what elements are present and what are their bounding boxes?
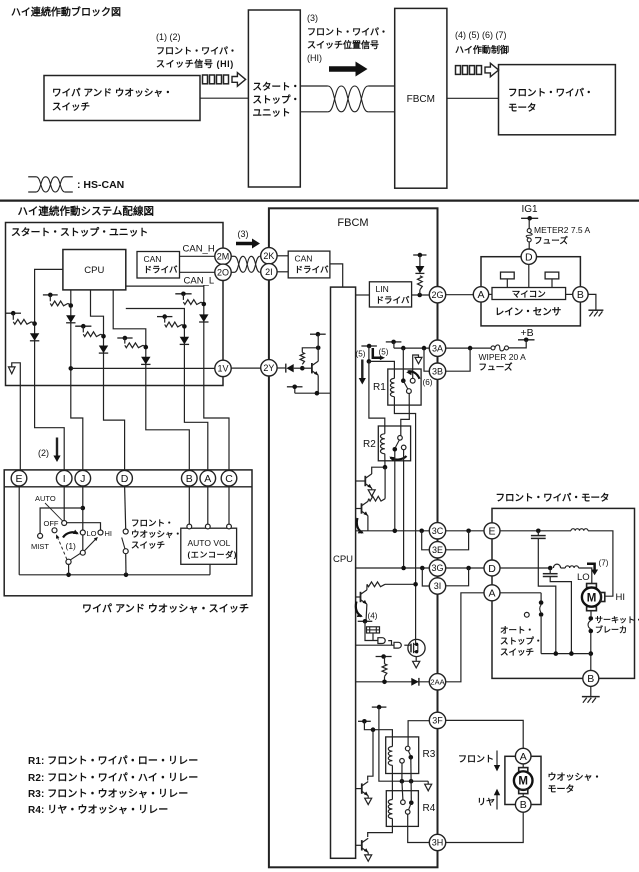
wire 3C to E — [446, 530, 484, 532]
LIN driver box — [369, 282, 411, 307]
resistor 2AA node — [384, 657, 386, 664]
svg-text:2AA: 2AA — [430, 678, 444, 687]
svg-text:オート・: オート・ — [500, 625, 534, 635]
microcomputer box — [492, 288, 566, 300]
buffer gate 1 — [378, 638, 385, 644]
wire R4 contact to 3H — [408, 814, 430, 842]
relay R4 box — [386, 791, 418, 827]
connector 2O — [215, 264, 231, 280]
connector A (rain sensor) — [473, 287, 488, 302]
connector B (switch) — [182, 470, 198, 486]
relay R1 box — [388, 369, 421, 405]
action arrow (4) — [356, 602, 362, 617]
capacitor E line — [537, 531, 539, 536]
connector 3E — [429, 542, 445, 558]
wire D to microcomputer — [528, 264, 530, 287]
resistor S5 — [164, 317, 166, 323]
svg-text:CPU: CPU — [84, 265, 104, 276]
svg-text:フューズ: フューズ — [479, 362, 513, 372]
svg-text:スイッチ位置信号: スイッチ位置信号 — [307, 39, 379, 50]
svg-text:LO: LO — [87, 529, 97, 538]
svg-text:ユニット: ユニット — [253, 108, 291, 119]
twisted pair 2M/2O to 2K/2I — [235, 256, 260, 272]
svg-text:ウオッシャ・: ウオッシャ・ — [131, 529, 182, 539]
LO contact — [80, 530, 85, 535]
wire CAN driver to 2O — [180, 271, 215, 273]
svg-text:(HI): (HI) — [307, 53, 322, 63]
CAN driver box (start-stop unit) — [137, 252, 180, 279]
supply bar 2AA pull resistor — [376, 656, 392, 658]
svg-text:R3: R3 — [423, 749, 436, 760]
transistor Q4 — [356, 596, 361, 598]
wire R2 coil to Q2 — [384, 454, 386, 468]
block: FBCM — [395, 8, 447, 188]
svg-text:ブレーカ: ブレーカ — [595, 625, 627, 635]
resistor Q4 collector — [367, 582, 385, 587]
action arrow R2 — [391, 456, 407, 460]
connector B (washer) — [515, 797, 531, 813]
rotation arrow (1) — [63, 532, 78, 537]
connector C (switch) — [221, 470, 237, 486]
svg-text:LIN: LIN — [376, 284, 389, 294]
svg-text:3E: 3E — [432, 545, 443, 555]
wire 1V to 2Y — [231, 367, 261, 369]
diode S3 — [99, 346, 108, 354]
wire (5) node to R1 coil — [369, 361, 395, 378]
wire CPU to 3G — [356, 567, 430, 569]
svg-text:+B: +B — [521, 327, 534, 339]
svg-text:C: C — [225, 473, 233, 485]
connector 2G — [429, 287, 445, 303]
relay R4 coil — [388, 800, 392, 819]
connector 2M — [215, 248, 231, 264]
section separator line — [0, 199, 639, 201]
wire 3A to fuse — [446, 347, 491, 349]
capacitor D line — [549, 568, 551, 574]
svg-text:スイッチ信号 (HI): スイッチ信号 (HI) — [156, 58, 233, 69]
svg-text:1V: 1V — [217, 364, 228, 374]
connector D (motor) — [484, 560, 500, 576]
svg-text:ウオッシャ・: ウオッシャ・ — [548, 772, 602, 782]
svg-text:E: E — [488, 526, 495, 538]
svg-text:D: D — [525, 251, 533, 263]
wire to MIST contact — [40, 508, 83, 533]
svg-text:B: B — [520, 799, 527, 811]
svg-text:CAN_H: CAN_H — [183, 244, 215, 255]
svg-text:FBCM: FBCM — [337, 217, 368, 229]
motor M (washer) — [522, 764, 524, 768]
wire CAN driver to CPU — [330, 264, 343, 287]
svg-text:フロント・: フロント・ — [131, 518, 174, 528]
ground at rain sensor B — [588, 294, 596, 310]
svg-text:B: B — [577, 289, 584, 301]
svg-text:ストップ・: ストップ・ — [253, 94, 301, 106]
svg-text:ストップ・: ストップ・ — [500, 636, 543, 646]
wire B to encoder — [188, 486, 190, 524]
diode S1 — [30, 333, 39, 341]
svg-text:R2: R2 — [363, 439, 376, 450]
relay R1 coil — [390, 378, 394, 396]
front washer switch (on D) — [125, 486, 126, 529]
supply bar S3 — [75, 325, 91, 327]
connector J (switch) — [75, 470, 91, 486]
svg-text:スイッチ: スイッチ — [131, 540, 165, 550]
svg-text:3A: 3A — [432, 343, 443, 353]
svg-text:(エンコーダ): (エンコーダ) — [188, 550, 237, 560]
wire washer B to 3H — [446, 812, 524, 842]
svg-text:(4) (5) (6) (7): (4) (5) (6) (7) — [455, 30, 507, 40]
resistor S2 — [49, 295, 51, 301]
wire node to R1 common — [402, 348, 404, 381]
OFF contact — [52, 528, 57, 533]
digital signal arrow 1 — [203, 75, 208, 84]
resistor above 2Y node — [300, 352, 304, 364]
svg-text:ハイ連続作動システム配線図: ハイ連続作動システム配線図 — [18, 205, 155, 218]
svg-text:フューズ: フューズ — [534, 236, 568, 246]
wire C to encoder — [228, 486, 230, 524]
svg-text:B: B — [587, 673, 594, 685]
svg-text:モータ: モータ — [548, 783, 575, 794]
wire node to 1V — [69, 366, 74, 371]
diode at 2AA — [411, 678, 418, 686]
supply bar washer node — [372, 706, 387, 708]
inductor HI line — [571, 529, 588, 531]
block: wiper and washer switch — [44, 76, 200, 121]
svg-text:フロント・ワイパ・: フロント・ワイパ・ — [307, 26, 388, 37]
wire R1 contact to R2 contact — [401, 394, 410, 436]
diode S4 — [141, 357, 150, 365]
ferrite bead LO line — [553, 564, 560, 568]
svg-text:(5): (5) — [356, 350, 366, 359]
fuse WIPER 20A — [491, 346, 495, 350]
connector 3F — [429, 712, 445, 728]
connector I (switch) — [56, 470, 72, 486]
svg-text:A: A — [488, 588, 495, 600]
diode S5 — [180, 337, 189, 345]
wire (5) node to R2 coil — [369, 361, 385, 433]
svg-text:R4: リヤ・ウオッシャ・リレー: R4: リヤ・ウオッシャ・リレー — [28, 804, 168, 816]
wire R2 common to 3C node — [394, 452, 396, 531]
svg-text:モータ: モータ — [508, 102, 537, 114]
svg-text:レイン・センサ: レイン・センサ — [495, 307, 562, 318]
wire I to AUTO contact — [63, 486, 65, 521]
digital signal arrow 2 — [456, 66, 461, 75]
svg-text:(1): (1) — [66, 541, 77, 551]
relay R3 box — [386, 737, 419, 774]
connector B (motor) — [583, 670, 599, 686]
wire 3F to R3 contact — [408, 721, 429, 747]
bold L arrow (5) — [373, 348, 380, 358]
relay R2 contacts — [398, 436, 403, 441]
svg-text:MIST: MIST — [31, 542, 49, 551]
connector 2Y — [261, 360, 277, 376]
relay R2 coil — [380, 434, 384, 454]
wire 2AA to motor A — [446, 593, 484, 682]
wire CAN driver to 2M — [180, 255, 215, 257]
wire CPU to 2AA — [356, 681, 430, 683]
supply bar S6 — [175, 293, 191, 295]
wire FBCM to front wiper motor — [447, 97, 499, 99]
svg-text:2I: 2I — [265, 267, 273, 277]
svg-text:スイッチ: スイッチ — [500, 647, 534, 657]
svg-text:D: D — [488, 563, 496, 575]
connector 3I — [429, 578, 445, 594]
wire A to encoder — [207, 486, 209, 524]
supply bar S1 — [6, 312, 22, 314]
box: rain sensor — [481, 257, 580, 326]
resistor S1 — [12, 313, 14, 320]
svg-text:フロント・ワイパ・モータ: フロント・ワイパ・モータ — [496, 492, 610, 504]
wire R2 contact to 3G node — [403, 450, 405, 568]
svg-text:OFF: OFF — [44, 519, 59, 528]
signal marker above R1 contact — [413, 355, 419, 378]
svg-text:フロント: フロント — [458, 754, 494, 764]
svg-text:CAN: CAN — [144, 254, 162, 264]
svg-text:2Y: 2Y — [263, 363, 274, 373]
diode S2 — [66, 315, 75, 323]
svg-text:(5): (5) — [379, 348, 389, 357]
box: washer motor — [505, 756, 541, 804]
svg-text:D: D — [121, 473, 129, 485]
svg-text:3I: 3I — [434, 581, 442, 591]
svg-text:(7): (7) — [599, 559, 609, 568]
resistor S3 — [82, 326, 84, 332]
svg-text:3H: 3H — [432, 838, 444, 848]
svg-text:2K: 2K — [263, 251, 274, 261]
svg-text:R3: フロント・ウオッシャ・リレー: R3: フロント・ウオッシャ・リレー — [28, 788, 188, 800]
wire bar to contact rail — [379, 707, 428, 781]
connector D (switch) — [117, 470, 133, 486]
switch moving arm to HI — [70, 553, 81, 560]
wire CPU to 3C — [356, 530, 430, 532]
svg-text:M: M — [518, 776, 528, 788]
twisted pair HS-CAN bus — [300, 85, 328, 87]
bold arrow down (5) — [361, 360, 363, 380]
supply bar 3A node — [386, 341, 402, 343]
svg-text:J: J — [80, 473, 85, 485]
block: start-stop unit — [248, 10, 300, 187]
resistor S4 — [124, 338, 126, 344]
HI contact — [98, 530, 103, 535]
wire LIN driver to 2G — [412, 294, 430, 296]
svg-text:(3): (3) — [307, 13, 318, 23]
wire R3 coil node to Q5 — [368, 730, 373, 781]
svg-text:サーキット・: サーキット・ — [595, 616, 639, 625]
svg-text:(1) (2): (1) (2) — [156, 32, 181, 42]
wire R3 coil to R4 coil — [391, 765, 393, 799]
IG1 supply bar — [521, 217, 538, 219]
bold arrow right (CAN message) — [329, 62, 368, 77]
supply bar (5) node — [361, 345, 377, 347]
supply bar 2Y circuit — [310, 333, 326, 335]
dashed arm to OFF — [58, 537, 67, 559]
supply bar S5 — [157, 316, 172, 318]
wire microcomputer to B — [566, 293, 573, 295]
svg-text:2O: 2O — [217, 268, 229, 278]
connector 1V — [215, 360, 231, 376]
supply bar oscillator — [358, 620, 373, 622]
switch common contact — [66, 559, 71, 564]
CPU box (start-stop unit) — [63, 250, 126, 290]
svg-text:LO: LO — [577, 572, 590, 583]
resistor at LIN pull-up — [418, 276, 423, 290]
wire E to ground bus — [18, 486, 20, 575]
AUTO VOL encoder box — [181, 528, 237, 564]
svg-text:2M: 2M — [217, 252, 230, 262]
svg-text:A: A — [520, 751, 527, 763]
svg-text:3C: 3C — [432, 526, 444, 536]
transistor Q5 (R3 driver) — [356, 788, 362, 790]
ground below motor B — [590, 687, 592, 697]
svg-text:ハイ連続作動ブロック図: ハイ連続作動ブロック図 — [11, 6, 121, 19]
svg-text:R2: フロント・ワイパ・ハイ・リレー: R2: フロント・ワイパ・ハイ・リレー — [28, 772, 198, 784]
wire AUTO contact to HI contact — [67, 523, 101, 530]
relay R3 contacts — [405, 746, 410, 751]
svg-text:スタート・ストップ・ユニット: スタート・ストップ・ユニット — [11, 226, 148, 239]
wire R3 contacts down — [410, 757, 412, 781]
block: front wiper motor — [499, 65, 616, 135]
CAN driver box (FBCM) — [288, 251, 330, 278]
svg-text:I: I — [63, 473, 66, 485]
relay R1 contacts — [401, 378, 406, 383]
signal marker washer rail — [427, 781, 429, 784]
connector D (rain sensor) — [521, 249, 536, 264]
svg-text:スイッチ: スイッチ — [52, 102, 90, 113]
wire CPU to gate 2 — [356, 644, 394, 646]
svg-text:ハイ作動制御: ハイ作動制御 — [455, 44, 509, 55]
svg-text:A: A — [477, 289, 484, 301]
relay R2 box — [378, 426, 410, 461]
wire 3F to washer A — [446, 720, 524, 748]
wire CPU to node S1 (pin E path) — [35, 269, 65, 470]
supply bar R3 coil — [358, 720, 371, 722]
svg-text:E: E — [15, 473, 22, 485]
svg-text:フロント・ワイパ・: フロント・ワイパ・ — [508, 87, 594, 99]
wire J to LO contact — [82, 486, 84, 530]
relay R4 contacts — [402, 781, 403, 800]
signal arrow marker at pin E line — [12, 363, 21, 471]
wire CPU to node S6 (pin C path) — [126, 286, 229, 470]
switch ground bus — [19, 574, 210, 576]
bold arrow (7) into LO — [587, 564, 595, 570]
connector 2K — [261, 248, 277, 264]
connector 3G — [429, 560, 445, 576]
rain sensor element 1 — [501, 272, 515, 279]
wire node to 3B — [424, 348, 429, 371]
supply bar S4 — [117, 337, 132, 339]
svg-text:A: A — [204, 473, 211, 485]
wire 3G node to 3I — [422, 568, 429, 586]
svg-text:: HS-CAN: : HS-CAN — [77, 179, 124, 191]
transistor Q2 (R2 coil driver) — [356, 480, 366, 482]
connector 3H — [429, 834, 445, 850]
svg-text:FBCM: FBCM — [407, 94, 435, 105]
svg-text:フロント・ワイパ・: フロント・ワイパ・ — [156, 45, 237, 56]
svg-text:WIPER 20 A: WIPER 20 A — [479, 352, 527, 362]
wire CPU to node S2 (pin I path) — [71, 290, 83, 471]
svg-text:ドライバ: ドライバ — [295, 265, 329, 275]
svg-text:ワイパ アンド ウオッシャ・スイッチ: ワイパ アンド ウオッシャ・スイッチ — [82, 603, 249, 615]
svg-text:3G: 3G — [431, 563, 443, 573]
connector 2I — [261, 264, 277, 280]
wire 3E loop — [446, 531, 469, 550]
wire to R3 coil — [364, 721, 392, 746]
wire E to HI brush — [500, 530, 571, 532]
svg-text:(4): (4) — [368, 612, 378, 621]
relay R3 coil — [388, 747, 392, 766]
stub bar Q1 — [287, 386, 303, 388]
wire 2I to CAN driver — [277, 271, 288, 273]
connector 3B — [429, 363, 445, 379]
svg-text:AUTO VOL: AUTO VOL — [188, 538, 231, 548]
resistor S6 — [182, 294, 184, 300]
connector 3A — [429, 340, 445, 356]
crystal oscillator — [365, 621, 378, 640]
svg-text:M: M — [587, 592, 597, 604]
transistor Q3 (3C driver) — [356, 508, 362, 510]
svg-text:スタート・: スタート・ — [253, 81, 301, 93]
resistor Q2-Q3 — [369, 496, 385, 501]
wire switch to start-stop unit — [200, 97, 248, 99]
CPU box (FBCM) — [331, 287, 356, 858]
connector A (motor) — [484, 585, 500, 601]
wire 3C node to 3E — [422, 531, 430, 550]
supply bar S2 — [43, 294, 58, 296]
emitter return wire Q1 — [295, 392, 331, 394]
wire +B to fuse — [509, 340, 527, 348]
supply bar for LIN pull-up — [413, 254, 426, 256]
svg-text:マイコン: マイコン — [512, 289, 546, 299]
wire to 3A — [394, 347, 429, 349]
svg-text:(6): (6) — [423, 378, 433, 387]
auto stop switch — [500, 592, 541, 594]
svg-text:R4: R4 — [423, 803, 436, 814]
svg-text:METER2 7.5 A: METER2 7.5 A — [534, 225, 591, 235]
MOSFET source to ground marker — [415, 657, 417, 662]
svg-text:AUTO: AUTO — [35, 494, 56, 503]
svg-text:ドライバ: ドライバ — [376, 295, 410, 305]
svg-text:ワイパ アンド ウオッシャ・: ワイパ アンド ウオッシャ・ — [52, 87, 173, 99]
connector 3C — [429, 523, 445, 539]
svg-text:IG1: IG1 — [522, 204, 539, 215]
AUTO contact — [62, 521, 67, 526]
svg-text:R1: フロント・ワイパ・ロー・リレー: R1: フロント・ワイパ・ロー・リレー — [28, 755, 198, 767]
diode at LIN pull-up — [419, 255, 421, 266]
motor M (front wiper) — [587, 584, 597, 588]
connector 2AA — [429, 674, 445, 690]
wire 2Y to diode — [277, 367, 286, 369]
box: front wiper motor — [492, 508, 635, 678]
svg-text:ドライバ: ドライバ — [144, 265, 178, 275]
svg-text:3B: 3B — [432, 366, 443, 376]
svg-text:(3): (3) — [238, 229, 249, 239]
connector A (switch) — [200, 470, 216, 486]
wire A to microcomputer — [489, 293, 492, 295]
wire CPU to node S3 (pin D path) — [91, 290, 125, 471]
wire CPU to node S5 (pin A path) — [126, 309, 208, 471]
diode at 2Y (pointing left) — [285, 364, 287, 373]
svg-text:2G: 2G — [431, 290, 443, 300]
transistor Q1 (2Y driver) — [302, 367, 312, 369]
wire CPU to node S4 (pin B path) — [113, 290, 189, 471]
wire D to LO brush — [500, 567, 550, 569]
wire 2G to A — [446, 294, 474, 296]
buffer gate 2 — [394, 642, 401, 648]
wire R4 coil to Q6 — [368, 819, 393, 838]
svg-text:CAN_L: CAN_L — [184, 276, 215, 287]
diode S6 — [199, 314, 208, 322]
transistor Q6 (R4 driver) — [356, 844, 362, 846]
